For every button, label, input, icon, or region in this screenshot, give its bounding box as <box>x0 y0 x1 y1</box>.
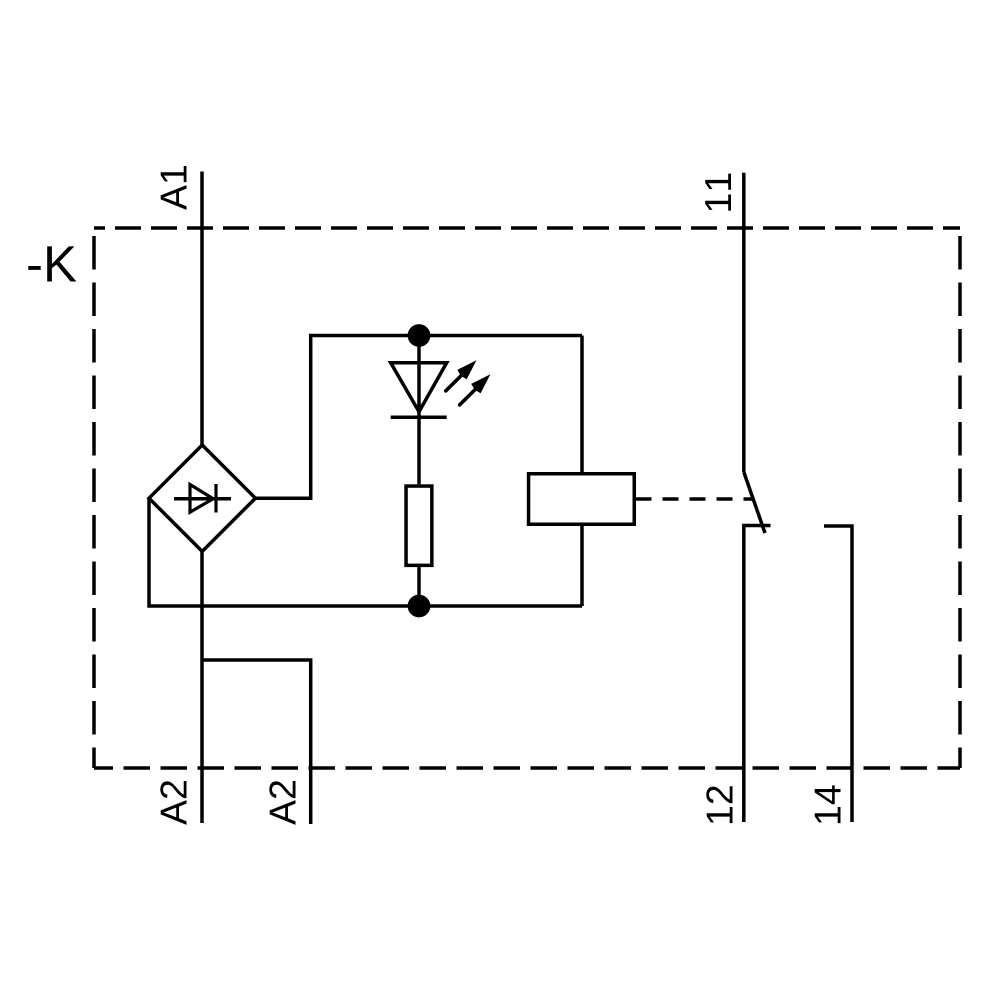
label -K <box>28 246 76 281</box>
wire bridge left vertex down and bottom horizontal rail <box>149 498 582 606</box>
label 14 <box>815 785 841 823</box>
LED D1 triangle <box>391 363 447 412</box>
junction node bottom <box>408 595 431 618</box>
LED D1 anode wire vertical <box>417 336 421 485</box>
label 12 <box>706 786 732 823</box>
LED D1 cathode bar <box>391 416 447 420</box>
wire A2 branch to second terminal A2 <box>202 660 311 824</box>
relay coil K1 <box>529 474 635 525</box>
relay enclosure dashed border right <box>958 228 962 768</box>
wire bridge right vertex up to top horizontal rail <box>255 336 582 499</box>
wire resistor to bottom rail <box>417 567 421 606</box>
relay enclosure dashed border left <box>92 228 96 768</box>
relay enclosure dashed border top <box>94 226 960 230</box>
LED radiation arrow 2 <box>460 374 491 405</box>
wire coil top vertical <box>580 336 584 473</box>
wire terminal A1 vertical <box>200 172 204 446</box>
label A2 second <box>269 781 295 825</box>
junction node top <box>408 324 431 347</box>
contact moving arm 11-12 <box>744 472 765 533</box>
bridge diode symbol horizontal line <box>174 497 231 501</box>
bridge diode symbol triangle <box>190 485 213 513</box>
contact 14 hook and terminal 14 vertical <box>824 526 852 822</box>
bridge diode symbol cathode bar <box>214 484 217 513</box>
dashed actuation link coil to contact <box>636 497 755 501</box>
bridge rectifier V1 diamond <box>149 445 255 551</box>
resistor R1 <box>406 486 432 565</box>
wire terminal 11 vertical <box>742 173 746 472</box>
contact 12 hook and terminal 12 vertical <box>744 526 771 823</box>
LED radiation arrow 1 <box>446 360 477 391</box>
wire A2 main vertical <box>200 551 204 823</box>
label A2 first <box>160 781 186 825</box>
wire coil bottom vertical <box>580 526 584 606</box>
label 11 <box>705 174 731 211</box>
relay enclosure dashed border bottom <box>94 766 960 770</box>
label A1 <box>161 166 187 210</box>
